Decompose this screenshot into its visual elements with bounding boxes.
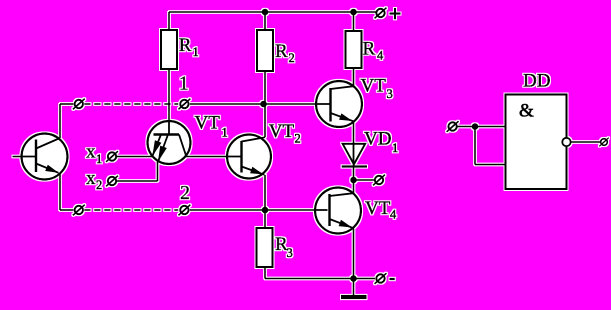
- svg-text:4: 4: [377, 49, 384, 63]
- svg-text:VT: VT: [365, 198, 391, 219]
- svg-text:R: R: [363, 39, 376, 60]
- svg-text:3: 3: [287, 246, 293, 260]
- svg-text:DD: DD: [523, 71, 550, 92]
- svg-text:VD: VD: [364, 129, 391, 150]
- svg-text:3: 3: [387, 87, 393, 101]
- svg-text:R: R: [179, 35, 192, 56]
- svg-text:VT: VT: [195, 113, 221, 134]
- svg-text:1: 1: [222, 126, 228, 140]
- svg-text:R: R: [275, 41, 288, 62]
- svg-text:&: &: [519, 101, 534, 122]
- svg-text:4: 4: [390, 208, 397, 222]
- svg-text:VT: VT: [269, 121, 295, 142]
- svg-text:1: 1: [193, 45, 199, 59]
- svg-text:1: 1: [96, 152, 102, 166]
- svg-text:1: 1: [392, 141, 398, 155]
- svg-text:2: 2: [295, 132, 301, 146]
- svg-text:VT: VT: [361, 76, 387, 97]
- svg-text:2: 2: [289, 51, 295, 65]
- svg-text:2: 2: [180, 182, 190, 204]
- svg-text:x: x: [86, 168, 96, 189]
- svg-text:1: 1: [179, 73, 189, 95]
- svg-text:2: 2: [96, 178, 102, 192]
- svg-text:x: x: [86, 141, 96, 162]
